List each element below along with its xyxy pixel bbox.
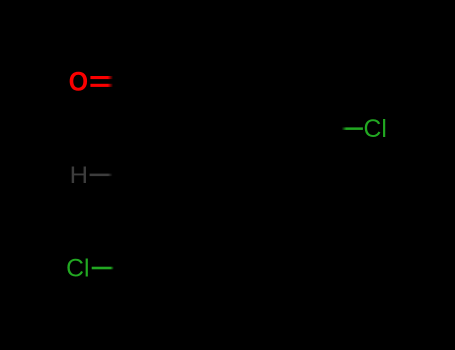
bond C-Cl (right aromatic) bbox=[342, 127, 363, 129]
bond C-Cl (left chloromethyl) bbox=[92, 267, 114, 270]
wire: hidden C1-C2 skeleton bond bbox=[135, 81, 137, 174]
svg-text:Cl: Cl bbox=[364, 116, 387, 143]
wire: hidden C2-ring skeleton bond bbox=[136, 173, 210, 175]
svg-text:O: O bbox=[69, 68, 89, 97]
bond C=O double bond upper line bbox=[90, 76, 112, 79]
bond C-H bbox=[90, 174, 113, 177]
svg-text:Cl: Cl bbox=[66, 256, 89, 283]
wire: hidden C2-C3 skeleton bond bbox=[135, 174, 137, 268]
bond C=O double bond lower line bbox=[90, 84, 112, 87]
svg-text:H: H bbox=[70, 161, 88, 188]
